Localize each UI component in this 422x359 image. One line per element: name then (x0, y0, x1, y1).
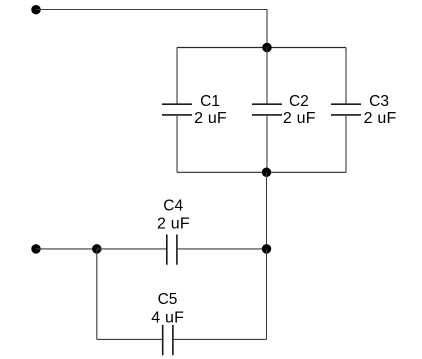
capacitor C4 (157, 197, 190, 264)
terminal dot left (31, 244, 41, 254)
terminal dot top-left (31, 5, 41, 15)
capacitor C1 (162, 93, 227, 127)
svg-text:2 uF: 2 uF (194, 110, 227, 127)
wire C4 to node (177, 248, 267, 250)
wire top lead (36, 10, 267, 48)
node left junction (92, 244, 102, 254)
wire node down right side (266, 249, 268, 340)
wire left drop (96, 249, 98, 340)
wire C2 top lead (266, 48, 268, 105)
node C4 right junction (262, 244, 272, 254)
wire C3 bottom lead (345, 115, 347, 172)
wire C1 bottom lead (176, 115, 178, 172)
svg-text:4 uF: 4 uF (151, 309, 184, 326)
svg-text:2 uF: 2 uF (283, 110, 316, 127)
wire C2 bottom lead (266, 115, 268, 172)
wire rail to C4 node (266, 172, 268, 249)
capacitor C2 (252, 93, 316, 127)
capacitor C3 (331, 93, 397, 127)
svg-text:C5: C5 (158, 291, 178, 308)
wire C1 top lead (176, 48, 178, 105)
svg-text:2 uF: 2 uF (364, 110, 397, 127)
wire to C4 (97, 248, 167, 250)
wire left lead (36, 248, 97, 250)
svg-text:2 uF: 2 uF (157, 215, 190, 232)
node bottom-rail junction (262, 168, 272, 178)
svg-text:C3: C3 (369, 93, 389, 110)
node top junction (262, 43, 272, 53)
wire top rail (177, 47, 346, 49)
svg-text:C2: C2 (289, 93, 309, 110)
wire bottom rail (177, 171, 346, 173)
wire C5 to right riser (173, 338, 267, 340)
capacitor C5 (151, 291, 184, 355)
svg-text:C1: C1 (200, 93, 220, 110)
svg-text:C4: C4 (163, 197, 183, 214)
wire C3 top lead (345, 48, 347, 105)
wire bottom to C5 (97, 338, 163, 340)
